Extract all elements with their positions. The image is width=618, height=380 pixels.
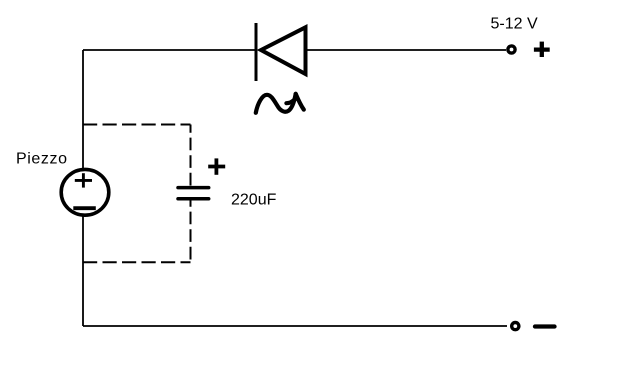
annotation squiggle arrow under diode bbox=[256, 94, 296, 113]
svg-text:220uF: 220uF bbox=[231, 192, 277, 209]
piezo minus sign bbox=[73, 206, 96, 210]
wire top-right horizontal (diode anode to positive terminal) bbox=[305, 49, 506, 51]
diode D1 cathode bar bbox=[255, 23, 258, 81]
svg-text:Piezzo: Piezzo bbox=[16, 151, 68, 168]
svg-text:5-12 V: 5-12 V bbox=[491, 16, 538, 33]
negative terminal ring bbox=[512, 323, 519, 330]
capacitor C1 bottom plate bbox=[178, 197, 209, 201]
diode D1 triangle bbox=[261, 27, 306, 74]
capacitor C1 top plate bbox=[178, 186, 209, 190]
squiggle arrowhead right barb bbox=[296, 94, 304, 110]
negative terminal minus sign bbox=[535, 324, 555, 328]
dashed box top edge bbox=[83, 124, 191, 126]
wire top-left horizontal (node A to diode cathode) bbox=[83, 49, 256, 51]
positive terminal ring bbox=[508, 46, 515, 53]
piezo source circle (Piezzo) bbox=[61, 169, 109, 215]
capacitor plus polarity sign bbox=[208, 158, 225, 174]
positive terminal plus sign bbox=[534, 42, 550, 57]
dashed box right edge lower (capacitor lead, dashed) bbox=[190, 199, 192, 262]
piezo plus sign bbox=[75, 173, 92, 187]
wire left vertical (top node down to bottom node) bbox=[82, 50, 84, 326]
dashed box right edge upper (capacitor lead, dashed) bbox=[190, 125, 192, 187]
wire bottom horizontal (to negative terminal) bbox=[83, 325, 507, 327]
squiggle arrowhead left barb bbox=[286, 99, 295, 103]
dashed box bottom edge bbox=[83, 261, 191, 263]
